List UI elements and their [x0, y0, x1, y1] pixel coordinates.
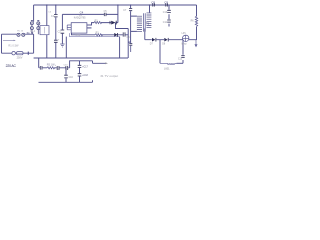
cap column A cap: [64, 75, 68, 78]
svg-text:C10: C10: [163, 11, 168, 14]
snubber capacitor C7: [129, 9, 132, 11]
svg-text:STRF: STRF: [75, 35, 81, 37]
svg-text:LP1: LP1: [182, 33, 187, 35]
bridge output junction arrow: [31, 32, 33, 34]
capacitor C2: [61, 30, 65, 33]
electrolytic cap CE2: [57, 66, 59, 70]
cap column B lower: [78, 74, 82, 76]
svg-text:472: 472: [152, 6, 155, 8]
ground symbol: [60, 44, 64, 47]
svg-text:C8: C8: [151, 1, 155, 5]
svg-text:31 TV output: 31 TV output: [100, 74, 118, 78]
wire bus riser x46.8: [46, 35, 48, 58]
svg-text:+C18: +C18: [82, 75, 88, 77]
cap column B upper: [78, 65, 82, 67]
wire secondary bottom lead: [144, 29, 146, 40]
wire output arrow stem: [93, 61, 106, 64]
capacitor C1 upper: [54, 15, 58, 17]
wire fb low branch: [72, 28, 129, 35]
wire C1 vertical: [55, 5, 57, 58]
arrow live lead: [3, 39, 14, 41]
terminal tick: [27, 52, 29, 55]
wire input bottom: [2, 52, 34, 54]
capacitor C10: [167, 10, 171, 12]
bridge diode dots: [31, 23, 38, 29]
resistor R6 on right rail: [195, 16, 197, 26]
wire D5 riser: [117, 5, 119, 23]
svg-text:250V: 250V: [17, 56, 23, 59]
inductor L1: [167, 62, 175, 65]
svg-text:C4: C4: [80, 10, 84, 14]
wire bus riser x66: [65, 37, 67, 58]
svg-text:220 AC: 220 AC: [6, 64, 17, 68]
wire top DC bus: [34, 4, 197, 6]
wire C4 loop: [62, 13, 118, 15]
svg-text:R1 0.5W: R1 0.5W: [8, 44, 19, 48]
ground arrow right: [195, 40, 197, 45]
wire feedback line: [70, 33, 120, 37]
svg-text:FU 25: FU 25: [17, 30, 24, 32]
switch S1 circles: [17, 33, 25, 36]
wire ground bus: [34, 57, 128, 59]
snubber bits near mosfet: [129, 44, 132, 46]
wire bridge top lead: [33, 5, 35, 22]
diode D5: [111, 21, 115, 25]
capacitor C1b lower: [54, 40, 58, 42]
resistor R5: [47, 67, 55, 69]
wire opto riser: [119, 37, 121, 58]
capacitor C9: [166, 3, 168, 6]
wire output line: [145, 39, 197, 41]
wire right rail: [196, 5, 198, 40]
bridge rectifier D1-D4 circles: [30, 20, 39, 34]
IC U1: [71, 23, 87, 33]
capacitor C11: [167, 20, 171, 22]
transformer T1 primary winding: [137, 16, 142, 31]
svg-text:KA5Q0765: KA5Q0765: [74, 17, 86, 20]
svg-text:L601: L601: [164, 68, 170, 71]
wire lamp drop left: [159, 40, 161, 64]
wire input right rail: [33, 34, 35, 53]
wire C9 column: [168, 5, 170, 27]
resistor R2: [94, 22, 101, 24]
capacitor C5: [104, 13, 106, 16]
series cap row: [66, 66, 68, 70]
IC pins right: [87, 25, 92, 28]
wire input top: [2, 33, 34, 35]
diode D8: [164, 38, 167, 42]
svg-text:472: 472: [165, 6, 168, 8]
wire filter row: [39, 58, 70, 68]
svg-text:C11: C11: [163, 21, 168, 24]
capacitor C8: [153, 3, 155, 6]
svg-text:+C17: +C17: [82, 67, 88, 69]
wire fb mid branch: [116, 23, 129, 29]
diode D7: [152, 38, 155, 42]
resistor R3: [95, 34, 102, 36]
capacitor on lamp drop: [181, 55, 184, 57]
diode D6: [114, 33, 117, 37]
IC pins left: [67, 25, 71, 30]
transformer core: [144, 13, 146, 31]
svg-text:C9: C9: [164, 1, 168, 5]
wire inductor link: [177, 62, 184, 64]
wire primary bottom lead: [128, 31, 137, 42]
svg-text:D1-4: D1-4: [30, 31, 36, 33]
output arrow head: [105, 62, 108, 64]
wire cap column B: [79, 61, 81, 83]
svg-text:C16: C16: [69, 77, 74, 79]
wire bridge box lead: [46, 5, 48, 26]
wire cap column A: [65, 68, 67, 83]
wire input left rail: [1, 34, 3, 53]
transformer secondary winding: [147, 13, 152, 28]
wire secondary top lead: [149, 5, 151, 13]
rectifier module box: [40, 26, 49, 35]
wire output rail: [70, 61, 93, 68]
fuse F1: [12, 52, 15, 55]
junction dots: [46, 4, 150, 5]
wire mosfet source drop: [130, 42, 132, 52]
wire fb corner: [127, 29, 129, 59]
wire fb top branch: [87, 23, 118, 25]
svg-text:C13: C13: [178, 58, 183, 60]
wire bottom gnd bus: [39, 80, 93, 82]
wire snubber lead: [131, 5, 137, 42]
capacitor C6: [123, 32, 125, 36]
svg-text:lamp: lamp: [181, 44, 187, 46]
wire C2 vertical: [61, 14, 63, 43]
electrolytic cap CE1: [40, 66, 42, 70]
lamp LP1: [183, 35, 189, 41]
wire lamp drop right: [182, 40, 184, 64]
